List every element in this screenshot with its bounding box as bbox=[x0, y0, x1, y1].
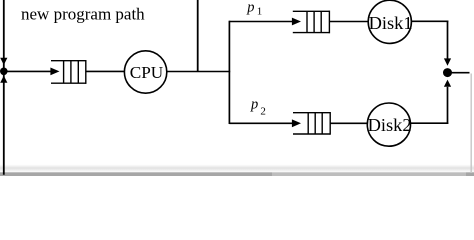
wire: CPU to splitter bbox=[167, 71, 230, 73]
svg-text:Disk1: Disk1 bbox=[369, 13, 413, 33]
wire: splitter vertical bbox=[228, 21, 230, 124]
wire: right junction down to Disk2 out corner bbox=[447, 87, 449, 124]
wire: Disk1 queue to Disk1 bbox=[329, 21, 368, 23]
queue: CPU queue box bbox=[51, 60, 86, 84]
svg-text:new program path: new program path bbox=[21, 4, 145, 23]
node: right junction dot bbox=[443, 68, 452, 77]
arrowhead: into Disk2 queue bbox=[292, 119, 301, 127]
decor: bottom grey bar middle segment bbox=[272, 172, 466, 176]
svg-text:CPU: CPU bbox=[130, 63, 164, 82]
server: CPU circle bbox=[124, 51, 166, 93]
decor: bottom grey bar right tip bbox=[466, 172, 474, 176]
svg-text:2: 2 bbox=[260, 106, 266, 118]
wire: bottom branch to Disk2 queue bbox=[229, 122, 292, 124]
wire: faint right vertical (page edge) bbox=[470, 74, 472, 174]
server: Disk2 circle bbox=[367, 103, 410, 146]
arrowhead: down into left junction bbox=[0, 58, 7, 65]
wire: Disk1 out to corner bbox=[411, 20, 448, 22]
wire: right junction to right edge bbox=[451, 72, 470, 74]
decor: soft light band above bottom bar bbox=[0, 165, 474, 173]
arrowhead: up into right junction bbox=[444, 80, 451, 87]
wire: top branch to Disk1 queue bbox=[229, 21, 292, 23]
decor: bottom grey bar left segment bbox=[0, 172, 272, 176]
wire: Disk2 out to corner bbox=[411, 122, 449, 124]
wire: Disk2 queue to Disk2 bbox=[330, 122, 367, 124]
svg-text:p: p bbox=[246, 0, 254, 16]
arrowhead: into Disk1 queue bbox=[292, 18, 301, 26]
arrowhead: down into right junction bbox=[444, 58, 451, 65]
svg-text:p: p bbox=[250, 97, 258, 113]
svg-text:Disk2: Disk2 bbox=[368, 115, 412, 135]
svg-text:1: 1 bbox=[257, 6, 263, 18]
wire: CPU queue to CPU bbox=[86, 70, 125, 72]
arrowhead: up into left junction bbox=[0, 76, 7, 83]
queue: Disk2 queue box bbox=[293, 112, 330, 135]
arrowhead: into CPU queue bbox=[50, 68, 59, 76]
queue: Disk1 queue box bbox=[293, 11, 330, 34]
wire: left vertical feedback/new-program line bbox=[3, 0, 5, 175]
wire: corner down to right junction bbox=[447, 21, 449, 59]
wire: left junction to CPU queue bbox=[6, 70, 52, 72]
node: left junction dot bbox=[0, 68, 8, 76]
server: Disk1 circle bbox=[368, 0, 411, 43]
wire: new program path vertical (exit to top) bbox=[197, 0, 199, 72]
